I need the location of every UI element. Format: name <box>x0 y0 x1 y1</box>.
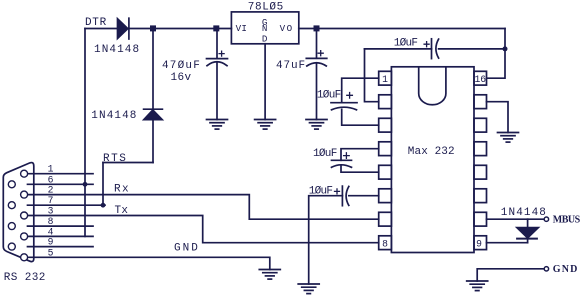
wire U1 VO to +5V rail <box>299 28 505 30</box>
svg-text:2: 2 <box>48 185 54 196</box>
wire MAX232 pin4 to C5 <box>341 149 379 161</box>
wire J1 pin6 stub <box>28 183 94 185</box>
J1 pin number labels <box>48 164 54 259</box>
wire J1 pin2 (Rx) to MAX232 pin7 <box>28 195 379 220</box>
wire MAX232 pin1 to C4 <box>342 78 379 103</box>
capacitor C4 10uF (pins 1-3) <box>331 93 357 110</box>
svg-text:5: 5 <box>48 247 54 258</box>
wire rail to C2 47uF <box>316 29 318 59</box>
wire J1 pin8 stub <box>28 225 94 227</box>
ground for U1 <box>255 120 276 130</box>
junction node rail/470uF <box>213 25 219 31</box>
ground for C6 <box>298 284 319 294</box>
wire DTR vertical down to pins 6,4 <box>84 29 86 237</box>
svg-text:Tx: Tx <box>115 205 129 217</box>
wire RTS vertical to J1 pin7 <box>102 163 104 206</box>
junction node rail/47uF <box>314 25 320 31</box>
svg-text:47uF: 47uF <box>276 60 306 72</box>
ground for GND terminal <box>467 281 488 291</box>
wire C2 to ground <box>316 63 318 120</box>
MAX232 left pin boxes <box>379 71 392 249</box>
capacitor C1 470uF 16v <box>207 51 228 66</box>
diode D1 1N4148 (DTR) <box>118 18 129 39</box>
capacitor C3 10uF (V+ to VCC) <box>424 39 439 59</box>
svg-text:VO: VO <box>280 23 294 34</box>
wire DTR horizontal <box>85 28 118 30</box>
label GND vertical <box>262 17 268 45</box>
wire J1 pin1 stub <box>28 173 94 175</box>
wire rail junction to D2 <box>152 29 154 110</box>
terminal GND right <box>544 267 548 271</box>
svg-text:16: 16 <box>474 74 486 85</box>
ground for J1 pin5 <box>259 270 280 280</box>
junction dot rail/C3 <box>503 46 508 51</box>
svg-text:78LØ5: 78LØ5 <box>248 2 284 14</box>
junction node at rail/D2 <box>150 25 156 31</box>
svg-text:Rx: Rx <box>114 183 130 195</box>
terminal MBUS <box>544 217 548 221</box>
wire C1 to ground <box>216 63 218 120</box>
svg-text:VI: VI <box>236 23 248 34</box>
capacitor C5 10uF (pins 4-5) <box>332 153 352 168</box>
ground for C2 <box>306 120 327 130</box>
svg-text:GND: GND <box>174 242 200 254</box>
wire U1 GND pin to ground <box>264 44 266 120</box>
svg-text:RTS: RTS <box>103 153 127 165</box>
svg-text:DTR: DTR <box>85 17 107 29</box>
capacitor C2 47uF <box>306 51 327 66</box>
diode D2 1N4148 (RTS) <box>144 109 163 119</box>
diode D3 1N4148 (MBUS) <box>517 219 538 243</box>
wire D1 to regulator VI <box>129 28 232 30</box>
wire D2 to RTS horizontal <box>152 120 154 163</box>
svg-text:8: 8 <box>382 238 388 249</box>
wire RTS horizontal <box>103 162 153 164</box>
svg-text:D: D <box>262 34 268 45</box>
wire J1 pin3 (Tx) to MAX232 pin8 <box>28 216 379 243</box>
svg-text:9: 9 <box>476 238 482 249</box>
svg-text:MBUS: MBUS <box>553 215 581 226</box>
capacitor C6 10uF (pin6 to ground) <box>335 186 349 206</box>
wire GND terminal to ground <box>477 269 544 281</box>
wire J1 pin5 GND to ground <box>28 257 270 269</box>
MAX232 right pin boxes <box>474 71 487 249</box>
wire C3 right to junction <box>439 48 505 50</box>
J1 pin circles <box>8 170 27 261</box>
wire J1 pin9 stub <box>28 246 94 248</box>
wire C4 to MAX232 pin3 <box>342 109 379 125</box>
svg-text:9: 9 <box>48 237 54 248</box>
wire J1 pin7 stub (RTS) <box>28 204 106 206</box>
IC U2 MAX232 body <box>391 67 474 253</box>
svg-text:1: 1 <box>48 164 54 175</box>
svg-text:GND: GND <box>553 264 579 275</box>
svg-text:3: 3 <box>48 206 54 217</box>
MAX232 pin number labels <box>382 74 486 250</box>
connector J1 DB9 shell <box>3 163 34 262</box>
wire C5 to MAX232 pin5 <box>341 166 379 172</box>
svg-text:1: 1 <box>382 74 388 85</box>
svg-text:1N4148: 1N4148 <box>91 110 137 122</box>
wire +5V rail down to MAX232 pin16 <box>487 29 506 79</box>
junction dot DTR/pin6 <box>83 182 88 187</box>
wire riser to MAX232 pin2 <box>365 49 379 102</box>
wire MAX232 pin10 to MBUS terminal <box>487 218 544 220</box>
regulator U1 78L05 box <box>231 12 298 44</box>
IC U2 notch <box>419 67 446 105</box>
wire MAX232 pin15 to ground <box>487 102 509 133</box>
svg-text:1N4148: 1N4148 <box>501 207 547 219</box>
wire rail to C1 470uF <box>216 29 218 59</box>
svg-text:RS 232: RS 232 <box>4 272 46 284</box>
wire C3 left to pin2 riser <box>365 48 432 50</box>
wire C6 right to MAX232 pin6 <box>349 195 379 197</box>
svg-text:1N4148: 1N4148 <box>94 44 140 56</box>
svg-text:1ØuF: 1ØuF <box>317 90 341 102</box>
svg-text:47ØuF: 47ØuF <box>162 60 201 72</box>
svg-text:1ØuF: 1ØuF <box>394 38 418 50</box>
wire J1 pin4 stub <box>28 235 94 237</box>
wire C6 left to ground <box>309 196 343 284</box>
junction dot RTS/pin7 <box>101 203 106 208</box>
svg-text:N: N <box>262 23 268 34</box>
ground for pin15 <box>498 133 519 143</box>
svg-text:1ØuF: 1ØuF <box>313 148 337 160</box>
wire MAX232 pin9 <box>487 242 528 244</box>
svg-text:1ØuF: 1ØuF <box>309 185 333 197</box>
svg-text:Max 232: Max 232 <box>408 146 455 158</box>
ground for C1 <box>207 120 228 130</box>
svg-text:16v: 16v <box>171 72 192 84</box>
